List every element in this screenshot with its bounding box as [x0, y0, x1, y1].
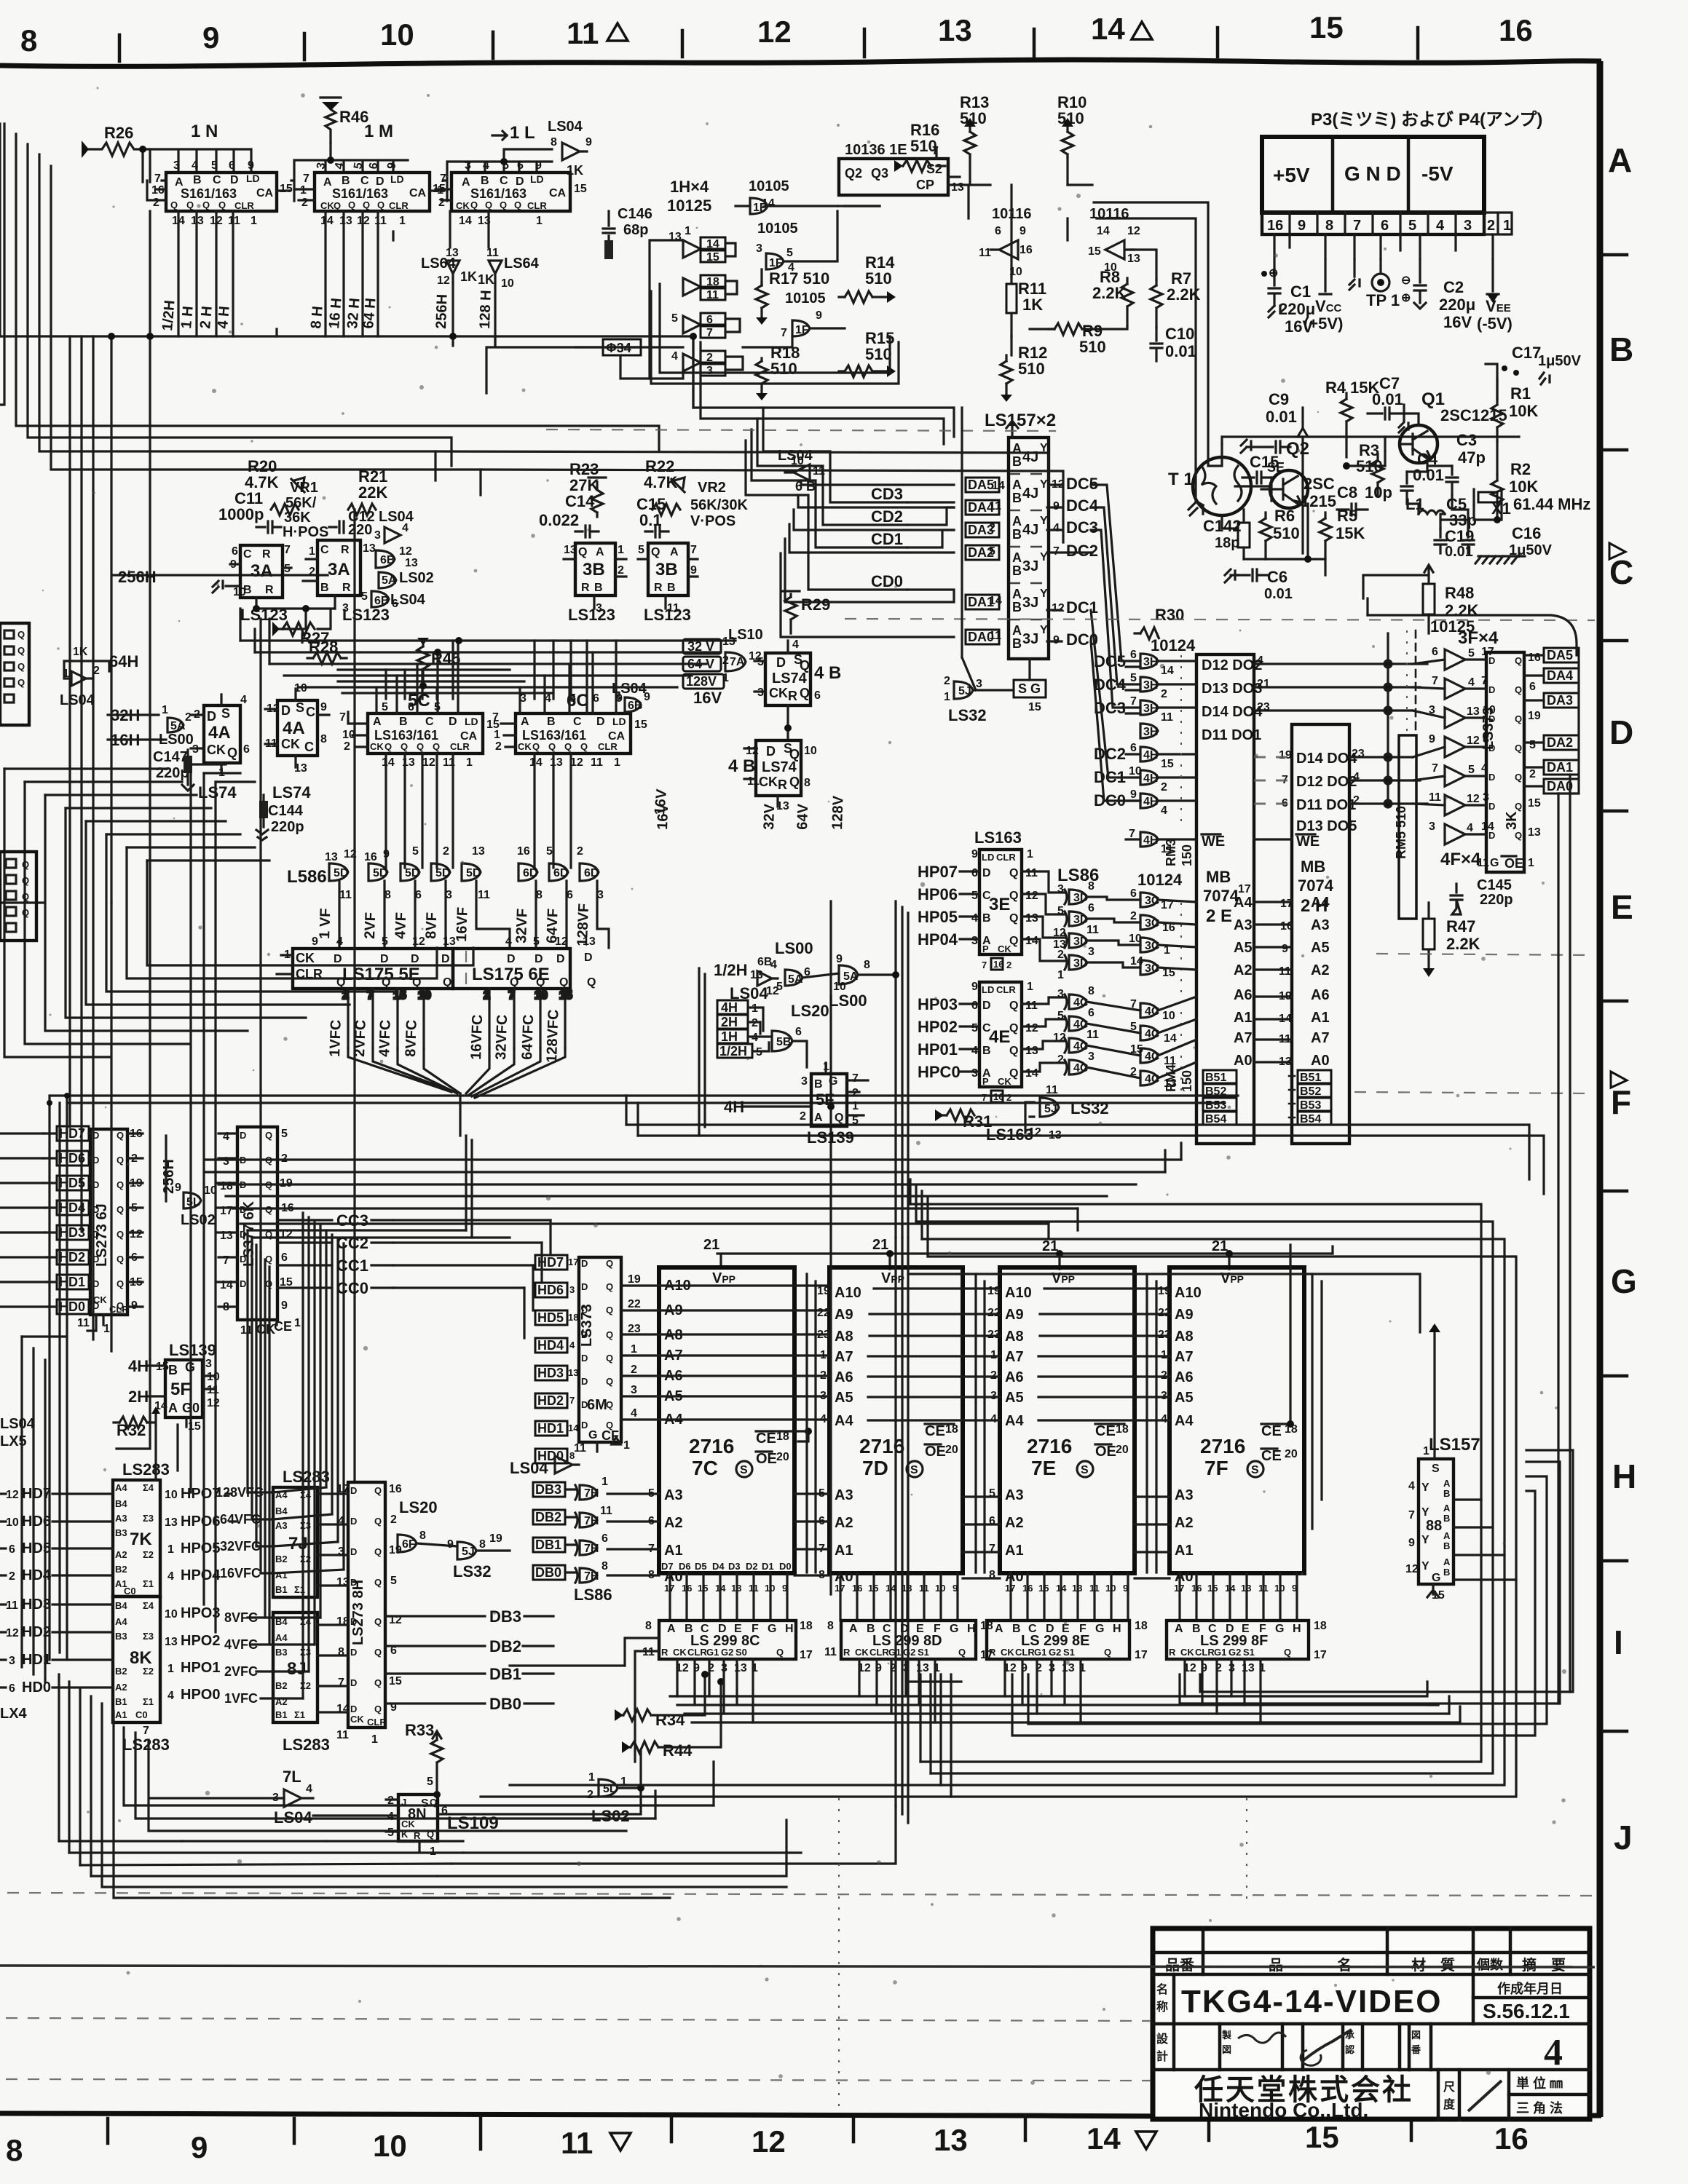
svg-text:HP04: HP04 — [918, 930, 958, 949]
svg-text:R: R — [788, 689, 797, 703]
svg-text:Q: Q — [1009, 1000, 1018, 1012]
svg-text:HD1: HD1 — [22, 1652, 51, 1668]
svg-text:C3: C3 — [1456, 431, 1477, 449]
svg-text:16V: 16V — [693, 689, 722, 707]
capacitor C6 0.01 — [1225, 568, 1293, 602]
svg-text:11: 11 — [1279, 965, 1291, 978]
svg-text:Σ3: Σ3 — [143, 1513, 154, 1524]
svg-text:4: 4 — [770, 959, 777, 971]
svg-text:LS04: LS04 — [60, 692, 95, 708]
svg-text:10105: 10105 — [749, 178, 789, 194]
svg-text:11: 11 — [1258, 1583, 1269, 1594]
svg-text:13: 13 — [339, 215, 352, 227]
svg-text:Q: Q — [485, 199, 492, 210]
svg-text:3H: 3H — [1143, 679, 1158, 692]
resistor R34 — [615, 1674, 705, 1729]
svg-text:6D: 6D — [584, 867, 599, 879]
svg-text:4H: 4H — [724, 1098, 744, 1116]
svg-text:CD3: CD3 — [871, 485, 903, 503]
svg-text:Q: Q — [606, 1399, 613, 1410]
RAM MB7074 2H — [1279, 724, 1365, 1144]
svg-text:6: 6 — [281, 1251, 288, 1264]
svg-text:OE: OE — [756, 1451, 777, 1467]
svg-text:3B: 3B — [655, 560, 678, 579]
svg-text:14: 14 — [1091, 12, 1125, 46]
capacitor C15 0.1 — [636, 495, 669, 537]
svg-text:DC2: DC2 — [1066, 542, 1098, 560]
svg-text:A0: A0 — [1234, 1053, 1253, 1069]
svg-text:11: 11 — [1025, 1000, 1038, 1012]
svg-text:11: 11 — [336, 1729, 349, 1741]
svg-text:10116: 10116 — [1089, 206, 1129, 222]
svg-text:CLR: CLR — [687, 1647, 707, 1658]
svg-text:15K: 15K — [1336, 524, 1365, 542]
svg-text:5: 5 — [671, 312, 678, 325]
svg-text:LS123: LS123 — [644, 606, 691, 624]
svg-text:16 H: 16 H — [326, 297, 345, 329]
svg-text:9: 9 — [1019, 225, 1026, 237]
svg-text:10K: 10K — [1509, 478, 1538, 496]
svg-text:6: 6 — [1088, 902, 1095, 914]
svg-text:11: 11 — [1477, 857, 1489, 869]
svg-text:8: 8 — [6, 2133, 23, 2167]
svg-text:LS32: LS32 — [948, 706, 987, 724]
vertical drops XOR to LS175 with VF labels — [339, 881, 609, 948]
capacitor C5 33p — [1435, 495, 1477, 553]
svg-text:D: D — [350, 1485, 357, 1496]
svg-text:MB: MB — [1301, 858, 1325, 876]
svg-text:9: 9 — [1282, 943, 1288, 955]
svg-text:D: D — [581, 1376, 588, 1387]
svg-text:LS74: LS74 — [762, 759, 797, 775]
svg-text:5: 5 — [1130, 672, 1137, 684]
svg-text:16: 16 — [517, 845, 530, 858]
svg-text:D: D — [1609, 713, 1633, 751]
svg-text:C: C — [306, 705, 315, 719]
svg-text:2: 2 — [390, 1514, 397, 1526]
wire vertical left of mux — [962, 408, 976, 690]
svg-text:4.7K: 4.7K — [644, 473, 678, 491]
svg-text:Q: Q — [606, 1258, 613, 1269]
svg-text:CD1: CD1 — [871, 530, 903, 548]
svg-text:11: 11 — [1086, 1029, 1099, 1041]
svg-text:A7: A7 — [1005, 1349, 1024, 1365]
svg-text:A6: A6 — [1005, 1369, 1024, 1385]
inverter LS04 6B top right — [778, 448, 825, 494]
svg-text:5: 5 — [971, 890, 978, 902]
wire top pins 1M — [291, 143, 408, 201]
svg-text:6D: 6D — [523, 867, 537, 879]
svg-text:C: C — [500, 175, 508, 187]
svg-text:13: 13 — [1025, 1045, 1038, 1057]
svg-text:2: 2 — [438, 197, 445, 209]
svg-text:LD: LD — [982, 984, 994, 995]
svg-text:RM3: RM3 — [1164, 839, 1178, 866]
svg-text:D: D — [240, 1278, 246, 1289]
resistor R7 2.2K — [1151, 269, 1201, 328]
svg-text:D: D — [1488, 713, 1495, 724]
svg-text:15: 15 — [1038, 1583, 1049, 1594]
svg-text:DC3: DC3 — [1066, 518, 1098, 537]
svg-text:5: 5 — [546, 845, 553, 858]
svg-text:9: 9 — [690, 564, 697, 577]
svg-text:E: E — [1611, 888, 1633, 926]
svg-text:S: S — [1081, 1464, 1089, 1476]
svg-text:H·POS: H·POS — [283, 524, 328, 540]
svg-text:設: 設 — [1156, 2032, 1169, 2046]
svg-text:3: 3 — [706, 365, 713, 377]
svg-text:18: 18 — [1314, 1620, 1327, 1632]
svg-text:CLR: CLR — [1015, 1647, 1035, 1658]
svg-text:HP03: HP03 — [918, 995, 958, 1013]
capacitor C147 220p — [153, 749, 194, 791]
svg-text:CLR: CLR — [234, 200, 254, 211]
svg-text:7K: 7K — [130, 1530, 152, 1549]
svg-text:2: 2 — [1161, 781, 1167, 794]
svg-text:LS283: LS283 — [122, 1460, 170, 1479]
svg-text:D: D — [766, 744, 776, 759]
svg-text:CLR: CLR — [996, 852, 1016, 863]
svg-text:10: 10 — [804, 745, 817, 757]
svg-text:16: 16 — [389, 1483, 402, 1495]
svg-text:CA: CA — [256, 187, 274, 199]
svg-text:17: 17 — [664, 1583, 674, 1594]
wire 256H vertical — [111, 336, 328, 903]
signal drops from 1N : 1/2H 1H 2H 4H — [178, 211, 233, 336]
svg-text:1 M: 1 M — [364, 122, 393, 141]
svg-text:3: 3 — [801, 1075, 808, 1088]
resistor R29 — [782, 591, 830, 633]
svg-text:Y: Y — [1040, 587, 1048, 600]
svg-text:6: 6 — [602, 1532, 608, 1545]
svg-text:HD2: HD2 — [537, 1393, 564, 1408]
svg-text:HD3: HD3 — [537, 1366, 564, 1380]
svg-text:D: D — [982, 1000, 991, 1012]
svg-text:Y: Y — [1421, 1506, 1429, 1519]
svg-text:2: 2 — [1130, 910, 1137, 922]
svg-text:Q: Q — [1009, 867, 1018, 879]
oscillator wires — [1222, 364, 1502, 575]
wire right F-row bus — [910, 1179, 1516, 1580]
svg-text:5B: 5B — [776, 1036, 791, 1048]
svg-text:10: 10 — [418, 989, 431, 1002]
svg-text:I: I — [1614, 1623, 1623, 1661]
svg-text:1: 1 — [167, 1663, 174, 1675]
CD input labels — [871, 485, 903, 590]
svg-text:Q: Q — [606, 1353, 613, 1364]
svg-text:CK: CK — [998, 943, 1011, 954]
signal labels 32V 64V 128V — [683, 636, 735, 707]
svg-text:A: A — [1443, 1503, 1451, 1514]
svg-text:A4: A4 — [275, 1632, 288, 1643]
svg-text:A: A — [1608, 141, 1632, 179]
svg-text:HP07: HP07 — [918, 863, 958, 881]
svg-text:OE: OE — [1504, 856, 1523, 871]
svg-text:A4: A4 — [115, 1482, 127, 1493]
svg-text:16: 16 — [1494, 2121, 1529, 2156]
svg-text:5: 5 — [1408, 218, 1416, 234]
svg-text:14: 14 — [706, 238, 719, 250]
svg-text:1 L: 1 L — [510, 123, 535, 143]
svg-text:14: 14 — [992, 480, 1005, 492]
svg-text:Q: Q — [22, 859, 29, 870]
svg-text:CK: CK — [456, 200, 470, 211]
mid long bus band (F/G boundary) — [67, 1096, 1544, 1238]
svg-text:Q3: Q3 — [871, 166, 888, 181]
buffer column 10125 3F — [1429, 617, 1499, 869]
resistor R6 510 — [1260, 507, 1300, 559]
svg-text:LD: LD — [612, 716, 626, 727]
svg-text:A3: A3 — [835, 1487, 853, 1503]
svg-text:1: 1 — [371, 1733, 378, 1746]
svg-text:16: 16 — [1267, 218, 1283, 234]
gate LS32 5J b — [417, 1532, 510, 1580]
svg-text:Y: Y — [1040, 478, 1048, 491]
svg-text:A10: A10 — [1175, 1285, 1202, 1301]
svg-text:Y: Y — [1421, 1534, 1429, 1546]
svg-text:10136 1E: 10136 1E — [845, 142, 907, 158]
svg-text:D: D — [240, 1130, 246, 1141]
svg-text:+5V: +5V — [1273, 164, 1310, 186]
svg-text:Q: Q — [1515, 655, 1522, 666]
svg-text:G N D: G N D — [1344, 162, 1401, 185]
svg-text:Σ1: Σ1 — [294, 1709, 305, 1720]
svg-text:12: 12 — [1052, 602, 1065, 614]
svg-text:CLR: CLR — [598, 741, 618, 752]
svg-text:A6: A6 — [1234, 987, 1253, 1003]
svg-text:12: 12 — [1025, 1022, 1038, 1034]
svg-text:C: C — [1609, 553, 1633, 591]
J-row faint dashes — [7, 1893, 1595, 1896]
svg-text:HD3: HD3 — [22, 1597, 51, 1613]
svg-text:9: 9 — [1298, 218, 1306, 234]
svg-text:5D: 5D — [334, 867, 348, 879]
svg-text:3H: 3H — [1143, 656, 1158, 668]
svg-text:6M: 6M — [587, 1397, 607, 1413]
wires between EPROMs — [807, 1274, 1322, 1572]
svg-text:P: P — [982, 943, 989, 954]
svg-text:単 位 ㎜: 単 位 ㎜ — [1516, 2076, 1563, 2091]
svg-text:HD7: HD7 — [22, 1486, 51, 1502]
svg-text:220p: 220p — [271, 819, 304, 835]
resistor R31 — [935, 1109, 992, 1131]
svg-text:Q: Q — [117, 1278, 124, 1289]
svg-text:2: 2 — [185, 711, 192, 724]
svg-text:Q: Q — [401, 741, 408, 752]
svg-text:CP: CP — [916, 178, 934, 192]
inverter LS04 1K (right of 1L) — [548, 119, 592, 178]
svg-text:HD2: HD2 — [59, 1250, 85, 1265]
svg-text:DB2: DB2 — [535, 1510, 561, 1524]
svg-text:64H: 64H — [109, 652, 138, 670]
svg-text:B2: B2 — [275, 1554, 288, 1564]
svg-text:A1: A1 — [115, 1709, 127, 1720]
svg-text:5: 5 — [281, 1128, 288, 1140]
svg-text:17: 17 — [1314, 1649, 1327, 1661]
svg-text:2: 2 — [618, 564, 624, 577]
decoder LS139 5F center — [724, 1061, 868, 1147]
svg-text:B: B — [193, 174, 202, 186]
resistor network RM3 — [1164, 655, 1194, 866]
svg-text:10124: 10124 — [1151, 636, 1196, 654]
svg-text:10: 10 — [501, 277, 514, 290]
svg-text:14: 14 — [459, 215, 472, 227]
svg-text:13: 13 — [951, 181, 964, 194]
svg-text:15: 15 — [559, 989, 572, 1002]
svg-text:3: 3 — [976, 678, 982, 690]
svg-text:2 E: 2 E — [1206, 906, 1232, 926]
svg-text:HP06: HP06 — [918, 885, 958, 903]
svg-text:R4: R4 — [1325, 379, 1346, 397]
svg-text:LS163: LS163 — [974, 828, 1022, 847]
svg-text:C19: C19 — [1445, 527, 1474, 545]
svg-text:A2: A2 — [835, 1515, 853, 1531]
svg-text:2716: 2716 — [1200, 1435, 1245, 1457]
svg-text:7: 7 — [339, 711, 346, 724]
svg-text:Σ1: Σ1 — [143, 1696, 154, 1707]
svg-text:2: 2 — [309, 566, 315, 578]
svg-text:A7: A7 — [1234, 1030, 1253, 1046]
svg-text:0.01: 0.01 — [1165, 342, 1196, 360]
svg-text:6: 6 — [9, 1543, 15, 1556]
svg-text:D: D — [1488, 684, 1495, 695]
svg-text:A7: A7 — [1175, 1349, 1194, 1365]
capacitor C145 220p — [1451, 877, 1513, 914]
wire DA return loop — [1368, 598, 1577, 655]
svg-text:4: 4 — [1436, 218, 1445, 234]
adder LS283 7J — [273, 1468, 330, 1597]
svg-text:CD0: CD0 — [871, 572, 903, 590]
svg-text:D3: D3 — [728, 1561, 741, 1572]
svg-text:計: 計 — [1156, 2049, 1168, 2063]
svg-text:1: 1 — [602, 1476, 608, 1488]
svg-text:1: 1 — [685, 225, 691, 237]
svg-text:J: J — [1614, 1819, 1633, 1856]
svg-text:Q: Q — [384, 741, 392, 752]
svg-text:HP02: HP02 — [918, 1018, 958, 1036]
svg-text:1μ50V: 1μ50V — [1538, 353, 1582, 369]
svg-text:D: D — [581, 1353, 588, 1364]
svg-text:2: 2 — [722, 654, 729, 667]
svg-text:A2: A2 — [664, 1515, 683, 1531]
svg-text:D5: D5 — [695, 1561, 707, 1572]
svg-text:A3: A3 — [664, 1487, 683, 1503]
svg-text:OE: OE — [1095, 1444, 1116, 1460]
svg-text:5F: 5F — [170, 1380, 191, 1399]
svg-text:B: B — [547, 716, 556, 728]
svg-text:D: D — [776, 655, 786, 670]
svg-text:9: 9 — [1130, 788, 1137, 801]
inverter LS04 6B right of 6C — [612, 681, 650, 712]
svg-text:9: 9 — [1123, 1583, 1128, 1594]
svg-text:A10: A10 — [1005, 1285, 1032, 1301]
svg-text:1H×4: 1H×4 — [670, 178, 709, 196]
svg-text:D: D — [1488, 830, 1495, 841]
svg-text:2: 2 — [1529, 768, 1536, 780]
svg-text:CLR: CLR — [527, 200, 547, 211]
capacitor C1 220u 16V — [1261, 267, 1315, 336]
svg-text:510: 510 — [1018, 360, 1045, 378]
resistor R28 — [307, 638, 347, 664]
svg-text:D4: D4 — [712, 1561, 725, 1572]
svg-text:8: 8 — [645, 1620, 652, 1632]
capacitor C4 0.01 — [1401, 450, 1444, 504]
svg-text:C: C — [213, 174, 221, 186]
svg-text:2 H: 2 H — [197, 306, 216, 330]
svg-text:8K: 8K — [130, 1648, 152, 1668]
svg-text:21: 21 — [1212, 1238, 1228, 1254]
svg-text:5: 5 — [786, 247, 793, 259]
svg-text:9: 9 — [191, 2130, 208, 2164]
svg-text:D: D — [350, 1577, 357, 1588]
svg-text:B53: B53 — [1205, 1099, 1226, 1112]
resistor R32 — [114, 1406, 160, 1439]
extra long feed lines to mux area — [435, 284, 1063, 542]
svg-text:2: 2 — [800, 1110, 806, 1123]
gate 10116 a — [979, 206, 1033, 278]
svg-text:7: 7 — [852, 1072, 859, 1085]
svg-text:Y: Y — [1421, 1481, 1429, 1494]
svg-text:3H: 3H — [1143, 703, 1158, 715]
svg-text:8: 8 — [551, 136, 557, 149]
svg-text:D: D — [350, 1516, 357, 1527]
wire CC extensions + HPO risers — [226, 1213, 551, 1698]
svg-text:11: 11 — [1089, 1583, 1100, 1594]
trimmer VR1 56K/36K H-POS — [283, 480, 328, 540]
svg-text:HP01: HP01 — [918, 1040, 958, 1059]
svg-text:11: 11 — [824, 1646, 837, 1658]
register LS377 6K — [220, 1127, 301, 1337]
inverter LS04 (6M G) — [510, 1456, 579, 1477]
capacitor C146 68p — [603, 206, 652, 259]
buffer 10125 d — [683, 351, 725, 376]
svg-text:7D: 7D — [862, 1457, 888, 1479]
resistor R47 2.2K — [1423, 903, 1480, 977]
svg-text:8: 8 — [1088, 985, 1095, 997]
svg-text:OE: OE — [925, 1444, 946, 1460]
svg-text:Q: Q — [374, 1577, 382, 1588]
svg-text:D: D — [1488, 655, 1495, 666]
svg-text:B: B — [342, 175, 350, 187]
svg-text:9: 9 — [1408, 1537, 1415, 1549]
svg-text:A3: A3 — [1234, 917, 1253, 933]
buffer 10125 b — [683, 275, 725, 300]
svg-text:5: 5 — [390, 1575, 397, 1587]
svg-text:B: B — [1443, 1513, 1450, 1524]
svg-text:6: 6 — [971, 1000, 978, 1012]
svg-text:56K/30K: 56K/30K — [690, 497, 748, 513]
svg-text:Q: Q — [377, 199, 384, 210]
svg-text:Q: Q — [587, 976, 596, 989]
svg-text:13: 13 — [934, 2123, 968, 2157]
svg-text:DA5: DA5 — [1547, 648, 1573, 662]
transistor Q2 2SC1215 — [1270, 439, 1336, 510]
data pin stubs under EPROMs — [670, 1573, 1297, 1621]
svg-text:3E: 3E — [989, 895, 1010, 914]
svg-text:HD4: HD4 — [537, 1338, 564, 1353]
svg-text:A9: A9 — [1005, 1307, 1024, 1323]
gates LS04/LS02 cluster (6B 5A) — [361, 509, 434, 610]
svg-text:Q: Q — [776, 1647, 784, 1658]
svg-text:Q: Q — [606, 1376, 613, 1387]
svg-text:14: 14 — [1097, 225, 1110, 237]
svg-text:CC0: CC0 — [336, 1279, 368, 1297]
svg-text:11: 11 — [77, 1317, 90, 1329]
svg-text:-5V: -5V — [1421, 162, 1454, 185]
svg-text:CLR: CLR — [869, 1647, 889, 1658]
wires buffers loop — [650, 240, 743, 379]
svg-text:7: 7 — [1432, 762, 1438, 775]
